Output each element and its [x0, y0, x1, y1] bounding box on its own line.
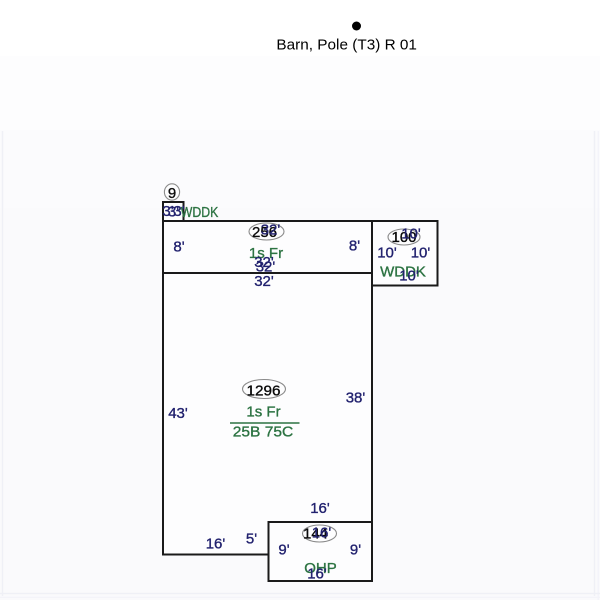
fraction bar — [230, 422, 300, 424]
area bubble 144 — [303, 525, 337, 542]
svg-text:10': 10' — [411, 245, 431, 262]
svg-text:10': 10' — [401, 226, 421, 243]
svg-text:25B 75C: 25B 75C — [233, 424, 294, 441]
svg-text:10': 10' — [377, 245, 397, 262]
svg-text:1s Fr: 1s Fr — [246, 404, 280, 421]
svg-text:8': 8' — [349, 238, 360, 255]
svg-text:16': 16' — [312, 525, 332, 542]
svg-text:16': 16' — [206, 536, 226, 553]
svg-text:1296: 1296 — [247, 382, 281, 399]
svg-text:32': 32' — [261, 222, 281, 239]
area bubble 1296 — [243, 380, 286, 399]
svg-text:Barn, Pole (T3) R 01: Barn, Pole (T3) R 01 — [276, 36, 417, 53]
svg-text:9': 9' — [350, 542, 361, 559]
area bubble 100 — [388, 229, 420, 245]
section WDDK small (3x3) outline — [163, 202, 184, 221]
faint panel border right — [594, 131, 596, 596]
faint panel border right outer — [597, 131, 599, 600]
svg-text:5': 5' — [246, 531, 257, 548]
svg-text:8': 8' — [173, 239, 184, 256]
section OHP (16x9) outline — [269, 522, 373, 581]
svg-text:9': 9' — [278, 542, 289, 559]
faint panel border left — [2, 131, 4, 596]
svg-text:WDDK: WDDK — [181, 204, 219, 221]
marker dot — [352, 22, 361, 31]
svg-text:43': 43' — [168, 405, 188, 422]
svg-text:38': 38' — [346, 390, 366, 407]
svg-text:16': 16' — [307, 566, 327, 583]
section main 1s Fr (1296) outline — [163, 273, 372, 555]
svg-text:10': 10' — [399, 268, 419, 285]
svg-text:32': 32' — [254, 273, 274, 290]
area bubble 256 — [249, 223, 284, 240]
area bubble 9 — [164, 184, 179, 200]
svg-text:9: 9 — [168, 185, 176, 202]
faint panel border bottom outer — [0, 596, 600, 598]
faint panel border bottom — [0, 593, 600, 595]
section strip 1s Fr (32x8) outline — [163, 221, 372, 273]
section WDDK right (10x10) outline — [372, 221, 438, 286]
svg-text:16': 16' — [310, 500, 330, 517]
